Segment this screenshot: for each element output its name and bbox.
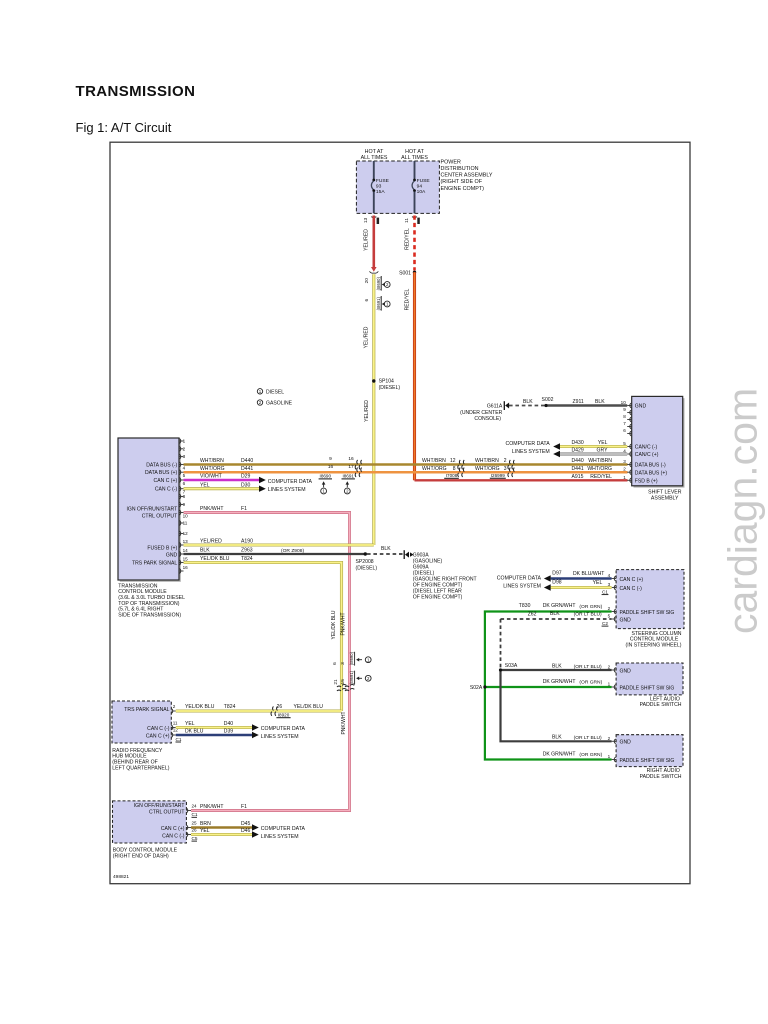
svg-text:GND: GND xyxy=(620,668,632,674)
svg-text:IGN OFF/RUN/START: IGN OFF/RUN/START xyxy=(134,803,185,809)
ground G611A text xyxy=(460,404,503,423)
svg-text:1: 1 xyxy=(183,439,186,444)
svg-text:I8690: I8690 xyxy=(320,474,332,479)
svg-text:SIDE OF TRANSMISSION): SIDE OF TRANSMISSION) xyxy=(118,613,181,619)
label RED/YEL (rotated) xyxy=(405,228,411,250)
svg-text:DK GRN/WHT: DK GRN/WHT xyxy=(543,751,576,757)
wire YEL/RED A190 fused B+ xyxy=(184,539,374,545)
svg-text:FUSED B (+): FUSED B (+) xyxy=(147,546,177,552)
svg-text:CENTER ASSEMBLY: CENTER ASSEMBLY xyxy=(441,173,493,179)
svg-text:6: 6 xyxy=(364,299,370,302)
svg-text:1: 1 xyxy=(608,754,611,759)
svg-text:FSD B (+): FSD B (+) xyxy=(635,478,658,484)
svg-text:15: 15 xyxy=(183,557,189,562)
label RED/YEL (rotated, lower) xyxy=(405,288,411,310)
wire YEL/DK BLU T824 trs park signal xyxy=(184,556,342,711)
svg-text:11: 11 xyxy=(183,521,188,526)
svg-text:T830: T830 xyxy=(519,603,531,609)
variant connector I8690 circled 1 (mid) xyxy=(349,651,371,665)
svg-text:CTRL OUTPUT: CTRL OUTPUT xyxy=(142,513,177,519)
svg-text:15: 15 xyxy=(340,679,346,685)
svg-text:YEL: YEL xyxy=(200,828,210,834)
svg-text:RED/YEL: RED/YEL xyxy=(405,228,411,250)
steering column control module box xyxy=(616,570,684,629)
svg-text:D97: D97 xyxy=(552,571,562,577)
svg-text:13: 13 xyxy=(183,539,189,544)
wire VIO/WHT D29 CAN C (+) xyxy=(184,474,266,484)
SCCM pin labels xyxy=(620,577,675,624)
svg-text:A915: A915 xyxy=(572,474,584,480)
legend circled 2 GASOLINE xyxy=(257,400,292,407)
label YEL/RED (rotated) xyxy=(364,229,370,251)
shift lever pin stubs xyxy=(627,403,632,483)
svg-text:94: 94 xyxy=(417,184,423,190)
SCCM C2 label xyxy=(602,621,609,626)
svg-text:COMPUTER DATA: COMPUTER DATA xyxy=(261,726,306,732)
ground G903A text xyxy=(413,552,477,600)
wire: feed into fuse 94 xyxy=(414,161,416,179)
svg-text:8: 8 xyxy=(183,494,186,499)
svg-text:LINES SYSTEM: LINES SYSTEM xyxy=(512,449,550,455)
svg-text:SP2008: SP2008 xyxy=(356,559,374,565)
svg-text:I8691: I8691 xyxy=(342,474,354,479)
svg-text:S03A: S03A xyxy=(505,663,518,669)
svg-text:COMPUTER DATA: COMPUTER DATA xyxy=(261,826,306,832)
svg-text:ALL TIMES: ALL TIMES xyxy=(361,155,388,161)
svg-text:4: 4 xyxy=(183,465,186,470)
svg-text:PNK/WHT: PNK/WHT xyxy=(200,506,224,512)
svg-text:(I8691): (I8691) xyxy=(349,670,354,684)
svg-text:PNK/WHT: PNK/WHT xyxy=(200,804,224,810)
label HOT AT ALL TIMES (right) xyxy=(401,149,428,161)
svg-text:BLK: BLK xyxy=(200,548,210,554)
svg-text:BLK: BLK xyxy=(381,546,391,552)
svg-text:D30: D30 xyxy=(241,482,251,488)
svg-text:TRS PARK SIGNAL: TRS PARK SIGNAL xyxy=(132,560,177,566)
labels PNK/WHT F1 at BCM xyxy=(200,804,247,810)
wire: feed into fuse 93 xyxy=(373,161,375,179)
splice S03A xyxy=(499,663,518,671)
svg-text:9: 9 xyxy=(183,502,186,507)
svg-text:(OR LT BLU): (OR LT BLU) xyxy=(574,735,602,741)
svg-text:7: 7 xyxy=(623,421,626,426)
svg-text:YEL/DK BLU: YEL/DK BLU xyxy=(200,556,230,562)
svg-text:D440: D440 xyxy=(572,458,584,464)
svg-text:6: 6 xyxy=(183,481,186,486)
wire BLK dashed to ground G903A xyxy=(367,546,403,554)
svg-text:YEL: YEL xyxy=(598,440,608,446)
svg-text:10A: 10A xyxy=(417,189,426,195)
svg-text:POWER: POWER xyxy=(441,159,461,165)
wire Z62 BLK dashed gnd SCCM xyxy=(501,611,612,670)
svg-text:CTRL OUTPUT: CTRL OUTPUT xyxy=(149,809,184,815)
variant arrow circled 1 (bus left) xyxy=(321,481,327,494)
svg-text:DATA BUS (+): DATA BUS (+) xyxy=(635,470,668,476)
wire BLK Z911 ground from shift lever xyxy=(546,399,627,406)
svg-text:YEL/DK BLU: YEL/DK BLU xyxy=(331,610,337,639)
variant arrow circled 2 (bus right) xyxy=(344,481,350,494)
wire WHT/ORG D441 data bus (+) xyxy=(184,466,628,472)
variant connector I8690 with circled 2 xyxy=(376,276,390,291)
svg-text:S02A: S02A xyxy=(470,685,483,691)
right paddle pin numbers xyxy=(608,736,611,759)
svg-text:I8920: I8920 xyxy=(278,713,290,718)
connector pin 13 at PDC output xyxy=(363,217,379,224)
svg-text:PADDLE SWITCH: PADDLE SWITCH xyxy=(640,774,682,780)
svg-text:WHT/ORG: WHT/ORG xyxy=(587,466,612,472)
svg-text:2: 2 xyxy=(183,446,186,451)
left paddle pin labels xyxy=(620,668,675,691)
svg-text:16: 16 xyxy=(328,464,334,470)
svg-text:3: 3 xyxy=(504,466,507,472)
svg-text:(OR LT BLU): (OR LT BLU) xyxy=(574,612,602,618)
wire YEL/RED from fuse 93 xyxy=(371,216,377,272)
svg-text:BLK: BLK xyxy=(552,663,562,669)
svg-text:Z963: Z963 xyxy=(241,548,253,554)
svg-text:YEL/DK BLU: YEL/DK BLU xyxy=(294,704,324,710)
label POWER DISTRIBUTION CENTER ASSEMBLY xyxy=(441,159,493,191)
label PNK/WHT (rotated, lower) xyxy=(341,711,347,734)
wire D429 GRY CAN C (+) shift lever xyxy=(553,448,627,458)
svg-text:WHT/BRN: WHT/BRN xyxy=(200,458,224,464)
svg-text:2: 2 xyxy=(623,467,626,472)
svg-text:WHT/ORG: WHT/ORG xyxy=(475,466,500,472)
diagram border frame xyxy=(110,142,690,884)
variant connector I8691 circled 2 (mid) xyxy=(349,670,371,684)
svg-text:LINES SYSTEM: LINES SYSTEM xyxy=(268,487,306,493)
right paddle pin stubs xyxy=(612,739,617,762)
connector pin 11 at PDC output xyxy=(404,217,420,224)
svg-text:GRY: GRY xyxy=(597,448,609,454)
radio frequency hub module box xyxy=(112,701,171,743)
svg-text:(I8691): (I8691) xyxy=(376,297,381,311)
svg-text:5: 5 xyxy=(608,614,611,619)
svg-text:93: 93 xyxy=(376,184,382,190)
shift lever pin labels xyxy=(635,404,668,485)
wire YEL/DK BLU T824 from RF hub xyxy=(176,704,342,711)
right audio paddle switch box xyxy=(616,735,683,767)
svg-text:WHT/BRN: WHT/BRN xyxy=(475,458,499,464)
svg-text:FUSE: FUSE xyxy=(376,178,390,184)
svg-text:1: 1 xyxy=(608,682,611,687)
wire D98 YEL CAN C (-) SCCM xyxy=(544,579,612,590)
RF hub pin labels xyxy=(124,707,169,740)
svg-text:26: 26 xyxy=(277,704,283,710)
connector marks on bus xyxy=(355,460,361,477)
svg-text:(OR GRN): (OR GRN) xyxy=(579,752,602,758)
label COMPUTER DATA LINES SYSTEM (TCM) xyxy=(268,479,313,493)
svg-text:DISTRIBUTION: DISTRIBUTION xyxy=(441,166,479,172)
svg-text:3: 3 xyxy=(183,454,186,459)
svg-text:VIO/WHT: VIO/WHT xyxy=(200,474,222,480)
svg-text:C1: C1 xyxy=(602,589,608,594)
svg-text:3: 3 xyxy=(623,459,626,464)
splice SP2008 (DIESEL) xyxy=(356,552,378,571)
svg-text:CAN C (-): CAN C (-) xyxy=(162,833,185,839)
BCM pin numbers xyxy=(192,803,198,832)
svg-text:PADDLE SHIFT SW SIG: PADDLE SHIFT SW SIG xyxy=(620,610,675,616)
variant connector I8691 with circled 1 xyxy=(376,296,390,311)
svg-text:OF ENGINE COMPT): OF ENGINE COMPT) xyxy=(413,595,463,601)
svg-text:cardiagn.com: cardiagn.com xyxy=(720,388,766,634)
wire BLK dashed to ground G611A xyxy=(509,399,546,406)
svg-text:LEFT QUARTERPANEL): LEFT QUARTERPANEL) xyxy=(112,765,169,771)
svg-text:(I8690): (I8690) xyxy=(376,277,381,291)
svg-text:PNK/WHT: PNK/WHT xyxy=(341,711,347,734)
svg-text:LINES SYSTEM: LINES SYSTEM xyxy=(261,834,299,840)
svg-text:ENGINE COMPT): ENGINE COMPT) xyxy=(441,186,485,192)
pin 20 label (rotated) xyxy=(364,278,370,284)
svg-text:DATA BUS (-): DATA BUS (-) xyxy=(146,462,177,468)
label COMPUTER DATA LINES SYSTEM (SCCM) xyxy=(497,575,542,589)
svg-text:D45: D45 xyxy=(241,821,251,827)
svg-text:20: 20 xyxy=(364,278,370,284)
svg-text:DIESEL: DIESEL xyxy=(266,389,284,395)
svg-text:RED/YEL: RED/YEL xyxy=(405,288,411,310)
svg-text:C2: C2 xyxy=(602,621,608,626)
svg-text:10: 10 xyxy=(183,513,189,518)
BCM pin labels xyxy=(134,803,185,840)
TCM caption xyxy=(118,583,185,618)
splice S002 xyxy=(542,397,554,407)
svg-text:CAN C (-): CAN C (-) xyxy=(147,726,170,732)
svg-text:WHT/BRN: WHT/BRN xyxy=(588,458,612,464)
inline connector I7008 xyxy=(422,458,464,478)
left paddle wire labels xyxy=(543,663,603,685)
left audio paddle switch box xyxy=(616,663,683,695)
svg-text:15A: 15A xyxy=(376,189,385,195)
svg-text:CAN/C (-): CAN/C (-) xyxy=(635,445,658,451)
svg-text:PADDLE SHIFT SW SIG: PADDLE SHIFT SW SIG xyxy=(620,758,675,764)
svg-text:(I8690): (I8690) xyxy=(349,651,354,665)
svg-text:9: 9 xyxy=(623,407,626,412)
wire D430 YEL CAN C (-) shift lever xyxy=(553,440,627,450)
wire BRN D45 CAN C (+) BCM xyxy=(191,821,259,831)
label HOT AT ALL TIMES (left) xyxy=(361,149,388,161)
fuse 94 10A xyxy=(412,178,430,213)
shift lever caption xyxy=(648,489,682,501)
svg-text:1: 1 xyxy=(623,475,626,480)
BCM pin stubs xyxy=(186,808,191,837)
wire WHT/BRN D440 data bus (-) xyxy=(184,458,628,464)
svg-text:11: 11 xyxy=(173,721,178,726)
svg-text:6: 6 xyxy=(623,428,626,433)
SCCM pin numbers xyxy=(608,573,611,619)
pins 21 and 15 (rotated) xyxy=(333,679,346,685)
svg-text:(OR LT BLU): (OR LT BLU) xyxy=(574,664,602,670)
svg-text:D40: D40 xyxy=(224,721,234,727)
svg-text:25: 25 xyxy=(192,821,198,826)
svg-text:PNK/WHT: PNK/WHT xyxy=(341,612,347,635)
RF hub C1 label xyxy=(176,737,182,742)
shift lever pin numbers xyxy=(621,400,627,480)
wire RED/YEL vertical to shift lever xyxy=(413,272,416,480)
svg-text:D29: D29 xyxy=(241,474,251,480)
svg-text:CONSOLE): CONSOLE) xyxy=(474,416,501,422)
svg-text:CAN C (+): CAN C (+) xyxy=(620,577,644,583)
svg-text:12: 12 xyxy=(183,531,189,536)
svg-text:8: 8 xyxy=(623,414,626,419)
svg-text:CAN C (+): CAN C (+) xyxy=(154,478,178,484)
svg-text:SHIFT LEVER: SHIFT LEVER xyxy=(648,489,682,495)
svg-text:Fig 1: A/T Circuit: Fig 1: A/T Circuit xyxy=(76,120,172,135)
inline connector pins 9/16 16/17 xyxy=(328,456,354,470)
svg-text:(UNDER CENTER: (UNDER CENTER xyxy=(460,410,502,416)
watermark cardiagn.com xyxy=(720,388,766,634)
svg-text:Z62: Z62 xyxy=(528,612,537,618)
pins 6 and 3 (rotated) xyxy=(332,662,346,665)
svg-text:COMPUTER DATA: COMPUTER DATA xyxy=(497,575,542,581)
svg-text:F1: F1 xyxy=(241,804,247,810)
svg-text:LINES SYSTEM: LINES SYSTEM xyxy=(503,584,541,590)
svg-text:T824: T824 xyxy=(241,556,253,562)
svg-text:YEL/RED: YEL/RED xyxy=(200,539,222,545)
svg-text:BRN: BRN xyxy=(200,821,211,827)
wire YEL D46 CAN C (-) BCM xyxy=(191,828,259,838)
svg-text:A190: A190 xyxy=(241,539,253,545)
RF hub caption xyxy=(112,748,169,772)
wire YEL D40 CAN C (-) RF hub xyxy=(176,721,259,731)
left paddle caption xyxy=(640,696,682,708)
svg-text:2: 2 xyxy=(173,704,176,709)
svg-text:6: 6 xyxy=(332,662,338,665)
subtitle: Fig 1: A/T Circuit xyxy=(76,120,172,135)
svg-text:BLK: BLK xyxy=(523,399,533,405)
TCM pin function labels xyxy=(126,462,177,566)
svg-text:2: 2 xyxy=(504,458,507,464)
svg-text:WHT/ORG: WHT/ORG xyxy=(200,466,225,472)
svg-text:I7008: I7008 xyxy=(446,473,458,478)
labels YEL/DK BLU and PNK/WHT (rotated) xyxy=(331,610,347,639)
svg-text:PADDLE SWITCH: PADDLE SWITCH xyxy=(640,702,682,708)
transmission control module U1 xyxy=(118,438,181,582)
labels D440/D441/A915 near shift lever xyxy=(572,458,613,480)
svg-text:2: 2 xyxy=(608,736,611,741)
SCCM pin stubs xyxy=(612,576,617,621)
svg-text:3: 3 xyxy=(340,662,346,665)
svg-text:SP104: SP104 xyxy=(379,379,394,385)
svg-text:D39: D39 xyxy=(224,729,234,735)
wire DK BLU D39 CAN C (+) RF hub xyxy=(176,729,259,739)
right paddle pin labels xyxy=(620,740,675,764)
svg-text:(OR GRN): (OR GRN) xyxy=(579,680,602,686)
svg-text:BLK: BLK xyxy=(550,611,560,617)
svg-text:BLK: BLK xyxy=(552,735,562,741)
svg-text:TRANSMISSION: TRANSMISSION xyxy=(76,83,196,100)
right paddle wire labels xyxy=(543,735,603,759)
svg-text:14: 14 xyxy=(183,548,189,553)
svg-text:ALL TIMES: ALL TIMES xyxy=(401,155,428,161)
wire T830 DK GRN/WHT paddle shift sw sig xyxy=(485,603,612,760)
svg-text:10: 10 xyxy=(621,400,627,405)
label COMPUTER DATA LINES SYSTEM (BCM) xyxy=(261,826,306,840)
SCCM C1 label xyxy=(602,589,609,594)
svg-text:4: 4 xyxy=(608,573,611,578)
svg-text:CAN C (-): CAN C (-) xyxy=(155,487,178,493)
svg-text:DATA BUS (-): DATA BUS (-) xyxy=(635,463,666,469)
svg-text:(OR Z908): (OR Z908) xyxy=(281,548,304,554)
connector marks on verticals xyxy=(337,685,354,691)
label COMPUTER DATA LINES SYSTEM (RF hub) xyxy=(261,726,306,740)
svg-text:GND: GND xyxy=(166,552,178,558)
BCM C5 label xyxy=(192,836,198,841)
svg-text:9: 9 xyxy=(329,456,332,462)
svg-text:2: 2 xyxy=(608,665,611,670)
body control module box xyxy=(113,801,187,843)
svg-text:D441: D441 xyxy=(572,466,584,472)
right paddle caption xyxy=(640,768,682,780)
RF hub pin numbers xyxy=(173,704,179,733)
wire D97 DK BLU/WHT CAN C (+) SCCM xyxy=(544,571,612,582)
svg-text:DATA BUS (+): DATA BUS (+) xyxy=(145,470,178,476)
svg-text:16: 16 xyxy=(348,456,354,462)
svg-text:GASOLINE: GASOLINE xyxy=(266,401,293,407)
svg-text:12: 12 xyxy=(450,458,456,464)
fuse 93 15A xyxy=(371,178,389,213)
svg-text:YEL/DK BLU: YEL/DK BLU xyxy=(185,704,215,710)
svg-text:C1: C1 xyxy=(176,737,182,742)
BCM caption xyxy=(113,848,178,860)
svg-text:GND: GND xyxy=(635,404,647,410)
wire YEL D30 CAN C (-) xyxy=(184,482,266,492)
svg-text:CAN C (+): CAN C (+) xyxy=(146,733,170,739)
svg-text:D98: D98 xyxy=(552,579,562,585)
wire BLK vertical to right paddle xyxy=(501,670,612,741)
svg-text:D429: D429 xyxy=(572,448,584,454)
svg-text:(DIESEL): (DIESEL) xyxy=(379,385,401,391)
splice S02A xyxy=(470,685,487,691)
label YEL/RED (rotated, lower) xyxy=(364,400,370,422)
svg-text:YEL: YEL xyxy=(200,482,210,488)
pin 6 label (rotated) xyxy=(364,299,370,302)
wire RED/YEL dashed from fuse 94 xyxy=(413,216,416,271)
svg-text:COMPUTER DATA: COMPUTER DATA xyxy=(505,441,550,447)
RF hub pin stubs xyxy=(171,709,176,738)
svg-text:11: 11 xyxy=(404,218,410,223)
svg-text:YEL: YEL xyxy=(185,721,195,727)
svg-text:T824: T824 xyxy=(224,704,236,710)
svg-text:CAN/C (+): CAN/C (+) xyxy=(635,452,659,458)
svg-text:WHT/BRN: WHT/BRN xyxy=(422,458,446,464)
svg-text:DK BLU/WHT: DK BLU/WHT xyxy=(573,571,604,577)
svg-text:YEL: YEL xyxy=(593,580,603,586)
svg-text:D46: D46 xyxy=(241,828,251,834)
svg-text:21: 21 xyxy=(333,679,339,685)
wire A915 RED/YEL horizontal to shift lever pin 1 xyxy=(415,479,628,481)
svg-text:RED/YEL: RED/YEL xyxy=(590,474,612,480)
svg-text:16: 16 xyxy=(183,565,189,570)
inline connector 26 I8920 xyxy=(271,704,323,718)
svg-text:F1: F1 xyxy=(241,506,247,512)
svg-text:(RIGHT SIDE OF: (RIGHT SIDE OF xyxy=(441,179,483,185)
TCM pin numbers xyxy=(183,439,189,570)
svg-text:CAN C (+): CAN C (+) xyxy=(161,826,185,832)
inline connector I26999 xyxy=(475,458,514,478)
svg-text:(OR GRN): (OR GRN) xyxy=(579,604,602,610)
svg-text:PADDLE SHIFT SW SIG: PADDLE SHIFT SW SIG xyxy=(620,685,675,691)
BCM C1 label xyxy=(192,812,198,817)
inline connector labels I8690 / I8691 xyxy=(319,474,355,479)
svg-text:LINES SYSTEM: LINES SYSTEM xyxy=(261,734,299,740)
svg-text:GND: GND xyxy=(620,617,632,623)
wire PNK/WHT F1 ign off/run/start xyxy=(184,506,350,810)
svg-text:Z911: Z911 xyxy=(573,399,584,405)
inline connector below YEL/RED arrow xyxy=(370,271,379,273)
svg-text:C1: C1 xyxy=(192,812,198,817)
svg-text:I26999: I26999 xyxy=(491,473,505,478)
svg-text:IGN OFF/RUN/START: IGN OFF/RUN/START xyxy=(126,507,177,513)
svg-text:DK GRN/WHT: DK GRN/WHT xyxy=(543,679,576,685)
